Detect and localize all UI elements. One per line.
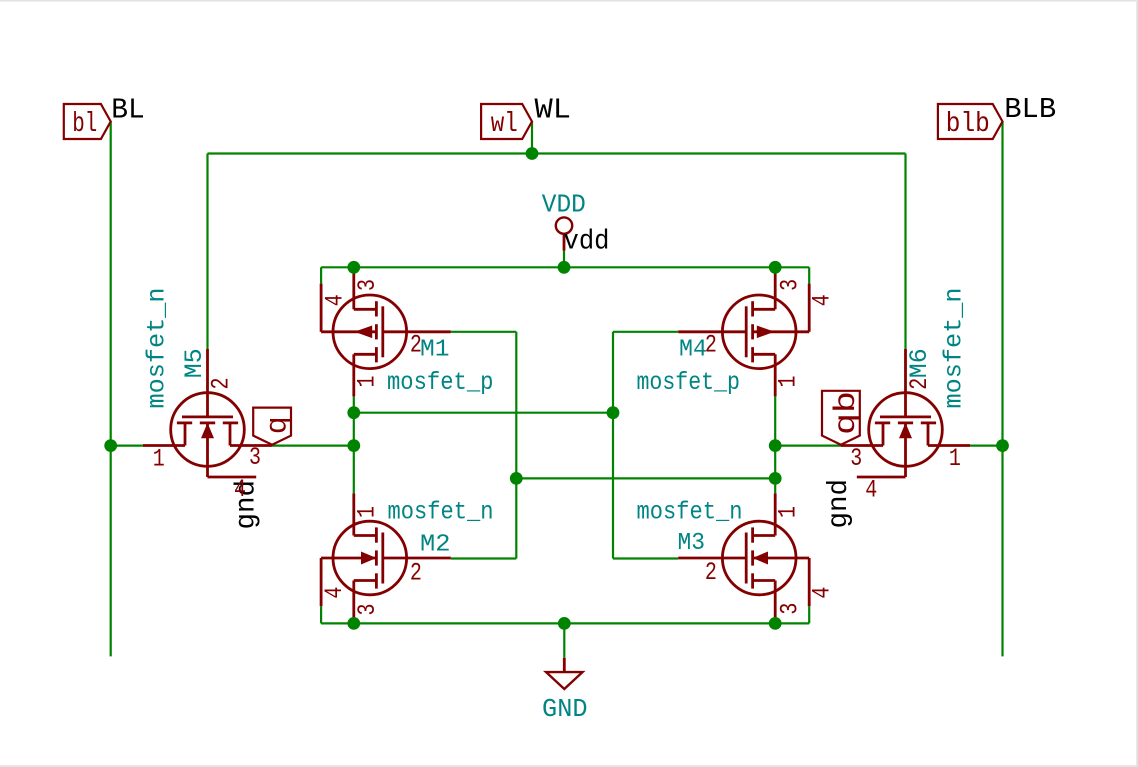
svg-text:3: 3 (353, 604, 382, 616)
svg-text:2: 2 (410, 331, 422, 360)
wire qb vertical (774, 396, 776, 493)
power symbol VDD (556, 217, 572, 250)
svg-text:bl: bl (72, 109, 97, 140)
wire VDD rail drop to M1 bulk (320, 267, 322, 283)
wire VDD rail drop to M4 bulk (808, 267, 810, 283)
svg-text:q: q (262, 416, 296, 434)
junction BLB node (996, 439, 1009, 452)
svg-text:VDD: VDD (542, 190, 586, 220)
svg-text:WL: WL (535, 94, 572, 127)
svg-text:mosfet_n: mosfet_n (388, 498, 494, 527)
svg-text:vdd: vdd (564, 227, 610, 258)
svg-text:2: 2 (410, 558, 422, 587)
svg-text:M6: M6 (905, 348, 934, 378)
wire M2 gate to cross (451, 557, 517, 559)
svg-text:M5: M5 (180, 348, 209, 378)
wire BLB vertical (1001, 122, 1003, 657)
wire GND rail riser to M2 bulk (320, 606, 322, 623)
junction WL (526, 147, 539, 160)
transistor M5 (mosfet_n) (143, 349, 272, 477)
svg-text:1: 1 (352, 506, 381, 518)
wire WL rail (208, 152, 906, 154)
junction VDD rail at M4 drain (769, 261, 782, 274)
svg-text:3: 3 (850, 444, 862, 473)
junction q node upper (347, 406, 360, 419)
wire M5 pin3 to q (272, 445, 354, 447)
svg-text:qb: qb (830, 391, 864, 435)
svg-text:4: 4 (808, 587, 837, 599)
svg-text:BLB: BLB (1004, 93, 1056, 126)
svg-text:1: 1 (153, 444, 165, 473)
svg-text:1: 1 (949, 444, 961, 473)
svg-text:M3: M3 (678, 530, 706, 557)
svg-text:M4: M4 (679, 337, 707, 364)
hierarchical label q (253, 408, 295, 445)
wire GND rail riser to M3 bulk (808, 606, 810, 623)
wire cross vertical to M1 M2 gates (515, 332, 517, 559)
svg-text:wl: wl (491, 109, 518, 140)
svg-text:1: 1 (352, 376, 381, 388)
svg-text:2: 2 (207, 378, 236, 390)
transistor M4 (mosfet_p) (678, 267, 809, 396)
svg-text:4: 4 (234, 475, 246, 504)
junction VDD rail at power stub (558, 261, 571, 274)
wire to M4 gate (613, 331, 678, 333)
svg-text:1: 1 (774, 376, 803, 388)
svg-text:3: 3 (249, 443, 261, 472)
wire M1 gate to cross (451, 331, 517, 333)
svg-text:3: 3 (775, 603, 804, 615)
svg-text:4: 4 (321, 294, 350, 306)
wire BL vertical (110, 122, 112, 657)
hierarchical label wl (481, 104, 532, 140)
junction qb cross at gates of M1 M2 (510, 472, 523, 485)
svg-text:mosfet_p: mosfet_p (637, 368, 741, 397)
svg-text:2: 2 (705, 558, 717, 587)
svg-text:mosfet_p: mosfet_p (387, 368, 494, 397)
wire M6 pin1 to BLB (970, 445, 1002, 447)
hierarchical label qb (822, 391, 864, 445)
wire WL to M6 gate (904, 154, 906, 350)
wire GND symbol stub (563, 623, 565, 657)
svg-text:mosfet_n: mosfet_n (143, 288, 172, 409)
transistor M2 (mosfet_n) (321, 493, 451, 622)
junction GND rail at M3 source (769, 617, 782, 630)
svg-text:gnd: gnd (824, 479, 855, 529)
junction BL node (104, 439, 117, 452)
svg-text:4: 4 (808, 294, 837, 306)
wire WL label stub (531, 122, 533, 154)
svg-text:4: 4 (320, 587, 349, 599)
svg-text:3: 3 (775, 279, 804, 291)
svg-text:GND: GND (542, 694, 588, 724)
junction GND rail at M2 source (347, 617, 360, 630)
svg-text:mosfet_n: mosfet_n (637, 498, 743, 527)
svg-text:4: 4 (865, 476, 877, 505)
junction q cross at gates of M3 M4 (607, 406, 620, 419)
ground symbol GND (546, 658, 582, 689)
svg-text:2: 2 (705, 331, 717, 360)
junction qb node at M6 (769, 439, 782, 452)
svg-text:M2: M2 (420, 532, 451, 559)
junction qb node lower (769, 472, 782, 485)
wire GND rail (321, 622, 809, 624)
junction VDD rail at M1 drain (347, 261, 360, 274)
wire to M3 gate (613, 557, 678, 559)
junction GND rail at power stub (558, 617, 571, 630)
svg-text:2: 2 (905, 378, 934, 390)
transistor M3 (mosfet_n) (678, 493, 809, 622)
svg-text:1: 1 (774, 506, 803, 518)
transistor M6 (mosfet_n) (841, 349, 970, 477)
svg-text:M1: M1 (420, 337, 450, 364)
svg-text:3: 3 (353, 279, 382, 291)
transistor M1 (mosfet_p) (321, 267, 451, 396)
svg-text:mosfet_n: mosfet_n (940, 288, 969, 409)
hierarchical label bl (64, 104, 111, 140)
wire qb to M6 pin3 (775, 445, 841, 447)
wire BL to M5 pin1 (111, 445, 143, 447)
wire q vertical (353, 396, 355, 493)
hierarchical label blb (938, 104, 1003, 140)
wire WL to M5 gate (206, 154, 208, 350)
wire qb cross horizontal (516, 477, 775, 479)
junction q node at M5 (347, 439, 360, 452)
wire cross vertical to M3 M4 gates (612, 332, 614, 559)
svg-text:BL: BL (111, 93, 145, 126)
wire q cross horizontal (354, 412, 613, 414)
svg-text:blb: blb (946, 109, 990, 140)
wire VDD symbol stub (563, 251, 565, 268)
wire VDD rail (321, 266, 809, 268)
